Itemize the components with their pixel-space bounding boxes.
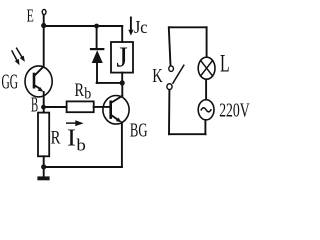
svg-text:J: J bbox=[116, 43, 128, 74]
svg-text:b: b bbox=[84, 85, 91, 102]
svg-text:220V: 220V bbox=[219, 100, 250, 122]
svg-text:K: K bbox=[152, 65, 163, 87]
svg-text:b: b bbox=[76, 135, 86, 154]
svg-text:I: I bbox=[67, 125, 76, 152]
svg-text:E: E bbox=[27, 6, 34, 26]
svg-text:L: L bbox=[220, 51, 230, 78]
svg-text:GG: GG bbox=[2, 69, 19, 93]
svg-text:BG: BG bbox=[130, 120, 148, 142]
svg-text:B: B bbox=[31, 92, 38, 116]
svg-text:R: R bbox=[51, 127, 61, 148]
svg-text:Jc: Jc bbox=[134, 17, 148, 37]
svg-text:R: R bbox=[75, 80, 85, 101]
